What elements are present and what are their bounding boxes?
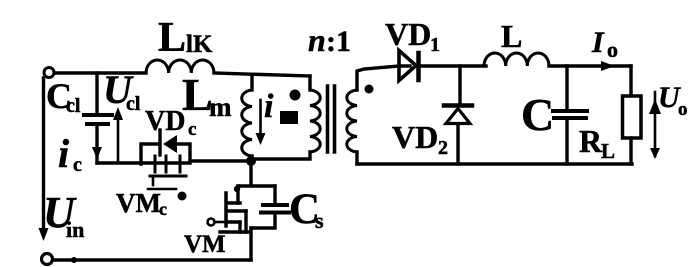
svg-text:VM: VM: [116, 188, 161, 218]
node A junction dot: [246, 156, 256, 166]
svg-text:L: L: [158, 15, 186, 61]
ink blob on bottom rail: [71, 257, 77, 263]
svg-text:2: 2: [438, 137, 448, 159]
voltage arrow U_cl: [117, 116, 120, 163]
svg-text:c: c: [188, 119, 196, 140]
diode VD1: [399, 51, 416, 81]
svg-text:in: in: [66, 217, 84, 242]
capacitor C output: [565, 66, 568, 109]
transformer core: [328, 86, 335, 152]
svg-text:1: 1: [430, 34, 440, 56]
transistor VM_c gate: [150, 175, 186, 178]
svg-text:L: L: [501, 18, 522, 54]
voltage arrow U_in: [39, 228, 49, 241]
gate node dot VM_c: [178, 192, 187, 201]
current arrow I_o: [601, 61, 615, 71]
wire VM drain: [238, 161, 275, 186]
svg-text:i: i: [264, 88, 274, 125]
inductor L_lK: [146, 60, 214, 73]
transistor VM: [236, 186, 239, 203]
current arrow i_m: [259, 100, 262, 133]
svg-text:i: i: [58, 131, 69, 176]
voltage arrow U_o: [654, 92, 657, 156]
svg-text:VD: VD: [385, 16, 431, 52]
inductor L_m: [250, 75, 253, 91]
polarity dot secondary: [365, 85, 374, 94]
resistor R_L: [629, 66, 632, 96]
diode VD2: [458, 66, 461, 105]
wire VM source: [220, 228, 251, 260]
svg-text:m: m: [209, 92, 232, 122]
svg-text:I: I: [591, 26, 605, 59]
gate lead line VM_c: [148, 188, 176, 191]
svg-text::1: :1: [326, 25, 351, 58]
svg-text:L: L: [601, 139, 615, 163]
polarity dot primary: [290, 90, 301, 101]
wire secondary bottom rail: [357, 162, 632, 165]
transformer primary winding: [308, 76, 311, 90]
svg-text:cl: cl: [66, 95, 81, 117]
capacitor C_cl: [95, 73, 98, 112]
svg-text:R: R: [579, 123, 603, 159]
svg-text:VM: VM: [184, 231, 226, 258]
svg-text:n: n: [308, 22, 326, 58]
transistor VM_c channel: [155, 156, 180, 172]
svg-text:o: o: [607, 37, 618, 62]
input terminal top: [44, 68, 54, 78]
svg-text:lK: lK: [186, 31, 213, 58]
wire clamp bottom: [97, 161, 141, 164]
svg-text:s: s: [315, 208, 324, 233]
svg-text:cl: cl: [126, 93, 141, 115]
wire clamp to node A: [190, 159, 250, 162]
wire bottom rail: [53, 258, 251, 261]
capacitor C_s: [273, 186, 276, 204]
transformer secondary winding: [357, 66, 410, 90]
svg-text:VD: VD: [145, 106, 185, 137]
inductor L output: [484, 53, 549, 66]
label i_m subscript block: [280, 111, 298, 124]
svg-text:VD: VD: [392, 119, 438, 155]
svg-text:C: C: [521, 89, 554, 140]
input terminal bottom: [42, 254, 53, 265]
svg-text:c: c: [73, 154, 82, 176]
svg-text:o: o: [678, 99, 688, 120]
clamp loop wires: [141, 144, 190, 164]
svg-text:c: c: [159, 199, 167, 219]
diode VD_c: [158, 130, 161, 155]
current arrow i_c: [92, 147, 102, 159]
wire left rail: [42, 78, 45, 228]
wire top rail: [55, 73, 310, 76]
